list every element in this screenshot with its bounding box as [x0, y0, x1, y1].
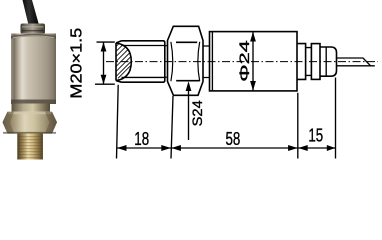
- svg-text:15: 15: [308, 126, 323, 147]
- svg-text:58: 58: [225, 129, 240, 150]
- svg-text:M20×1.5: M20×1.5: [67, 28, 85, 99]
- svg-text:Φ24: Φ24: [236, 40, 252, 81]
- svg-text:S24: S24: [190, 100, 206, 126]
- svg-text:18: 18: [134, 129, 149, 150]
